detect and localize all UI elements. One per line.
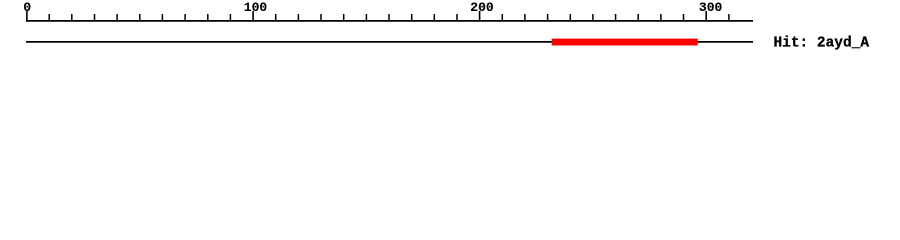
ruler axis line — [26, 20, 753, 22]
svg-text:300: 300 — [699, 0, 723, 15]
svg-text:200: 200 — [470, 0, 494, 15]
ruler major tick 0 — [26, 11, 28, 22]
ruler major tick 200 — [479, 11, 481, 22]
ruler minor ticks (every 10 residues) — [49, 14, 729, 22]
hit sequence line — [26, 41, 753, 43]
hit aligned-region bar (red) — [552, 39, 698, 46]
svg-text:Hit: 2ayd_A: Hit: 2ayd_A — [774, 36, 870, 52]
svg-text:0: 0 — [23, 0, 31, 15]
svg-text:100: 100 — [244, 0, 268, 15]
ruler major tick 100 — [252, 11, 254, 22]
ruler major tick 300 — [705, 11, 707, 22]
